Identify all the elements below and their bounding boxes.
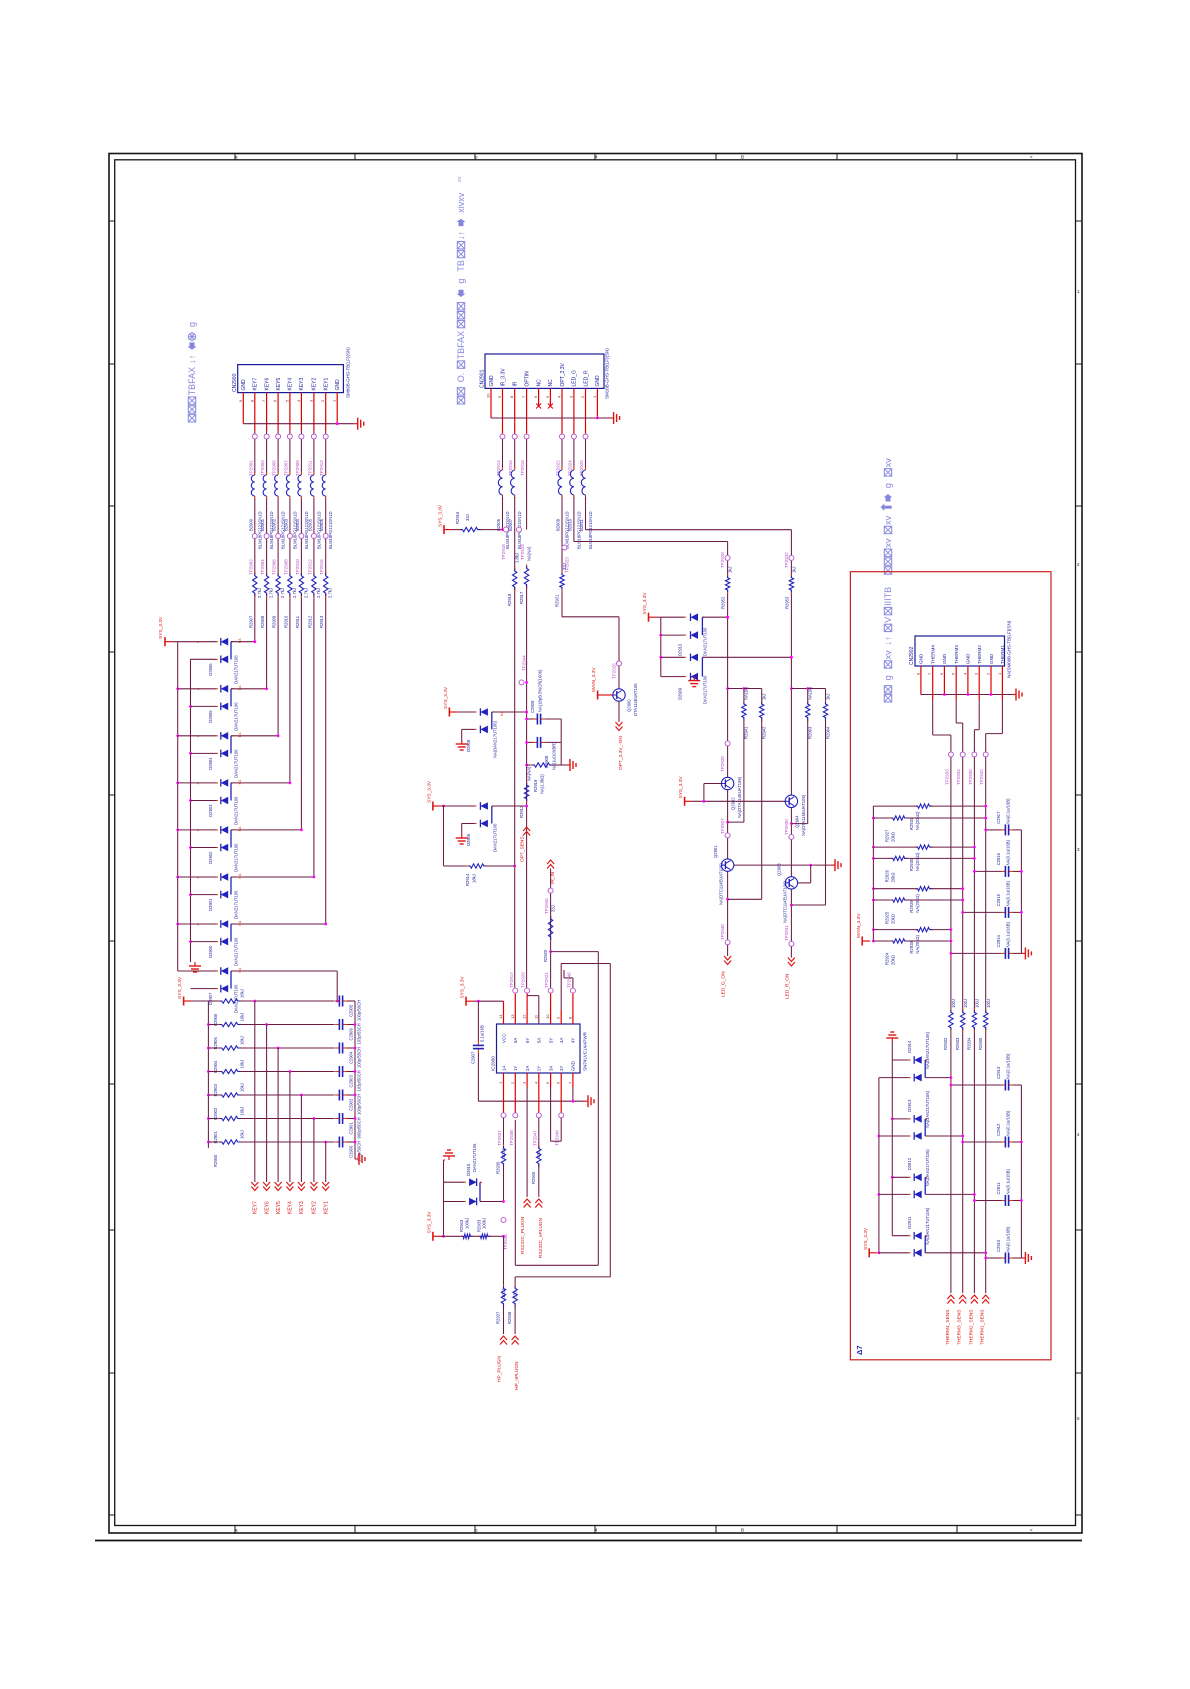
ground for CN2901: [610, 412, 620, 424]
svg-text:Q2900: Q2900: [627, 699, 632, 712]
wire KEY5 column: [277, 431, 279, 736]
svg-text:R2926: R2926: [884, 869, 889, 882]
svg-text:TP2910: TP2910: [295, 559, 300, 575]
svg-text:THERM4_SENS: THERM4_SENS: [945, 1310, 951, 1345]
wire LED_R route: [586, 497, 792, 555]
svg-text:g: g: [187, 322, 197, 327]
wire KEY3 to port: [300, 1095, 302, 1182]
svg-text:100J: 100J: [963, 999, 968, 1008]
svg-text:TP2920: TP2920: [720, 756, 725, 772]
svg-text:CN2901: CN2901: [480, 369, 486, 388]
svg-text:NA(DAN217UT106): NA(DAN217UT106): [925, 1031, 930, 1069]
port KEY7: [251, 1182, 258, 1214]
svg-text:BLM18PG121SN1D: BLM18PG121SN1D: [328, 512, 333, 549]
port OPT_SENS: [520, 827, 531, 862]
resistor R2914: [465, 864, 515, 886]
wire KEY5 to port: [277, 1048, 279, 1182]
svg-text:R2933: R2933: [476, 1219, 481, 1232]
svg-text:100kJ: 100kJ: [464, 1218, 469, 1229]
wire matrix rail B: [189, 659, 192, 962]
resistor R2917: [519, 546, 532, 604]
resistor R2933: [955, 999, 968, 1050]
svg-text:R2914: R2914: [465, 873, 470, 886]
svg-text:2A: 2A: [525, 1066, 530, 1071]
svg-text:6Y: 6Y: [525, 1038, 530, 1043]
svg-text:KEY4: KEY4: [288, 377, 294, 390]
power MAIN_3.3V red box: [856, 913, 870, 946]
wire KEY1 to port: [325, 1142, 327, 1182]
test point TP2920: [720, 741, 730, 772]
wire Q2902 base: [704, 784, 722, 802]
wire row to KEY6 and cap: [240, 1023, 334, 1026]
wire Q2901 emitter to ground: [734, 864, 831, 867]
wire pulldown rail: [192, 1001, 210, 1148]
svg-text:KEY6: KEY6: [264, 377, 270, 390]
svg-text:D2903: D2903: [208, 804, 213, 817]
test point TP2910: [295, 534, 304, 576]
test point TP2924: [567, 431, 576, 477]
svg-text:NA(DAN217UT106): NA(DAN217UT106): [925, 1207, 930, 1245]
dual diode D2905: [178, 685, 268, 731]
svg-text:D2906: D2906: [466, 833, 471, 846]
inductor B2905: [307, 472, 321, 549]
svg-text:13: 13: [510, 1014, 515, 1019]
wire KEY7 column: [254, 431, 256, 642]
capacitor C2906: [335, 1019, 362, 1045]
svg-text:xv: xv: [883, 458, 893, 468]
wire row to KEY2 and cap: [240, 1117, 334, 1120]
svg-text:O.: O.: [456, 373, 466, 383]
svg-text:LED_G_ON: LED_G_ON: [721, 971, 727, 997]
svg-text:NC: NC: [548, 379, 554, 387]
svg-text:R2936: R2936: [496, 1161, 501, 1174]
svg-text:C2913: C2913: [996, 1066, 1001, 1079]
test point TP2903: [260, 434, 269, 476]
inductor B2902: [272, 472, 286, 549]
svg-text:TB: TB: [456, 260, 466, 272]
svg-text:<: <: [1030, 1528, 1033, 1533]
svg-text:TP2942: TP2942: [979, 769, 984, 785]
wire KEY6 column: [266, 431, 268, 689]
svg-text:R2935: R2935: [978, 1037, 983, 1050]
svg-text:1Y: 1Y: [513, 1066, 518, 1071]
svg-text:16kJ: 16kJ: [240, 1013, 245, 1022]
wire pin8 jog: [564, 970, 573, 988]
dual diode D2908: [457, 708, 528, 758]
svg-text:TP2930: TP2930: [784, 819, 789, 835]
connector CN2901: [480, 348, 610, 399]
test point TP2941: [784, 925, 794, 947]
resistor R2908: [260, 572, 274, 629]
test point TP2904: [260, 534, 269, 576]
svg-text:SYS_3.3V: SYS_3.3V: [177, 976, 183, 999]
svg-text:KEY3: KEY3: [299, 1201, 305, 1214]
ground cap bus: [355, 1153, 365, 1165]
svg-text:C2904: C2904: [349, 1051, 354, 1064]
resistor R2921: [555, 563, 567, 607]
svg-text:103p/53CH: 103p/53CH: [357, 1023, 362, 1044]
port THERM3_SENS: [957, 1295, 967, 1345]
power SYS_3.3V LED rail: [678, 776, 785, 806]
svg-text:C2911: C2911: [996, 1182, 1001, 1195]
resistor R2937: [496, 1285, 506, 1335]
wire upper cap ground bus: [1020, 830, 1023, 954]
dual diode D2901: [178, 873, 316, 919]
port HP_PLUGN: [497, 1336, 507, 1382]
svg-text:TP2916: TP2916: [520, 460, 525, 476]
svg-text:NA(18pB.5%CR(1606): NA(18pB.5%CR(1606): [538, 669, 543, 712]
svg-text:3Y: 3Y: [559, 1066, 564, 1071]
svg-text:R2910: R2910: [283, 615, 288, 628]
resistor R2913: [519, 766, 532, 818]
test point TP2902: [248, 534, 257, 576]
svg-text:D2900: D2900: [208, 945, 213, 958]
test point TP2928: [720, 552, 730, 568]
svg-text:TBFAX: TBFAX: [187, 367, 197, 396]
svg-text:C2917: C2917: [996, 811, 1001, 824]
port THERM2_SENS: [968, 1295, 978, 1345]
wire THERM3 jog: [956, 700, 963, 752]
resistor R2953: [784, 566, 796, 609]
svg-text:GND: GND: [571, 1061, 576, 1071]
svg-text:Q2902: Q2902: [731, 797, 736, 810]
svg-text:KEY2: KEY2: [312, 377, 318, 390]
wire lower cap ground bus: [1020, 1085, 1023, 1258]
svg-text:R2964: R2964: [825, 726, 830, 739]
label Delta7: [855, 1345, 864, 1355]
resistor R2963: [791, 686, 812, 823]
svg-text:1kJ: 1kJ: [728, 566, 733, 573]
svg-text:12: 12: [522, 1014, 527, 1019]
svg-text:SYS_3.3V: SYS_3.3V: [443, 686, 449, 709]
test point TP2929: [521, 972, 530, 1010]
wire THERM4 jog: [933, 700, 951, 752]
wire pin9 loop up: [515, 964, 610, 1287]
wire matrix rail A: [176, 642, 179, 971]
transistor Q2900: [613, 683, 638, 716]
dual diode D2911: [879, 1207, 987, 1257]
wire LED_G column: [726, 561, 729, 956]
svg-text:5Y: 5Y: [548, 1038, 553, 1043]
svg-text:4A: 4A: [559, 1038, 564, 1043]
svg-text:10: 10: [545, 1014, 550, 1019]
dual diode D2912: [879, 1149, 976, 1199]
svg-text:TP2921: TP2921: [544, 972, 549, 988]
svg-text:R2917: R2917: [519, 591, 524, 604]
svg-text:KEY7: KEY7: [253, 377, 259, 390]
svg-text:1.8kJ: 1.8kJ: [515, 553, 520, 563]
ground red box diodes: [886, 1032, 898, 1060]
svg-text:GND: GND: [942, 653, 947, 664]
svg-text:NA(0.1u/16B): NA(0.1u/16B): [1006, 1053, 1011, 1079]
resistor R2905: [208, 989, 244, 1026]
svg-text:DAN217UT106: DAN217UT106: [234, 655, 239, 684]
svg-text:SM09B-GHS-TB(LF)(SN): SM09B-GHS-TB(LF)(SN): [346, 347, 351, 398]
resistor R2930: [873, 845, 975, 871]
dual diode D2915: [444, 1143, 505, 1205]
svg-text:DAN217UT106: DAN217UT106: [703, 627, 708, 656]
capacitor C2902: [335, 1090, 362, 1116]
svg-text:C2909: C2909: [530, 700, 535, 713]
port RS232C_nPLUGN: [535, 1199, 544, 1258]
svg-text:20kΩ: 20kΩ: [890, 914, 895, 924]
test point TP2915: [508, 431, 517, 477]
svg-text:KEY6: KEY6: [264, 1201, 270, 1214]
ground upper caps: [1021, 947, 1031, 959]
svg-text:B2910: B2910: [567, 518, 572, 531]
test point TP2935: [968, 752, 977, 785]
resistor R2918: [507, 553, 520, 606]
svg-text:KA: KA: [238, 685, 242, 690]
svg-text:THERM3_SENS: THERM3_SENS: [957, 1310, 963, 1345]
svg-text:TP2932: TP2932: [784, 552, 789, 568]
svg-text:SN74LVC14APWR: SN74LVC14APWR: [583, 1031, 588, 1071]
wire OPTIN column lower: [527, 587, 539, 1024]
svg-text:2.7kJ: 2.7kJ: [316, 588, 321, 598]
svg-text:R2928: R2928: [909, 941, 914, 954]
capacitor C2903: [335, 1066, 362, 1092]
dual diode D2906 clamp: [441, 802, 528, 852]
svg-text:R2911: R2911: [295, 615, 300, 628]
wire KEY6 to port: [266, 1025, 268, 1183]
wire row to KEY3 and cap: [240, 1094, 334, 1097]
power SYS_3.3V clamp D2908: [443, 686, 457, 716]
resistor R2924: [873, 939, 952, 965]
svg-text:B2904: B2904: [295, 518, 300, 531]
ground clamp D2906: [456, 834, 468, 844]
svg-text:NA(0.1u/16B): NA(0.1u/16B): [1006, 798, 1011, 824]
wire KEY7 to port: [254, 1001, 256, 1182]
svg-text:B2909: B2909: [556, 518, 561, 531]
svg-text:R2937: R2937: [496, 1311, 501, 1324]
wire red box rail B: [878, 1078, 881, 1255]
transistor Q2902: [721, 776, 742, 818]
wire THERM2 jog: [974, 700, 979, 752]
svg-text:D2911: D2911: [907, 1216, 912, 1229]
svg-text:SYS_3.3V: SYS_3.3V: [158, 616, 164, 639]
svg-text:TP2928: TP2928: [720, 552, 725, 568]
resistor R2933: [472, 1218, 505, 1239]
svg-text:KA: KA: [238, 638, 242, 643]
svg-text:NA(20kΩ): NA(20kΩ): [915, 935, 920, 954]
svg-text:R2941: R2941: [744, 726, 749, 739]
svg-text:NA(DAN217UT106): NA(DAN217UT106): [493, 720, 498, 758]
test point TP2938: [509, 1087, 518, 1146]
connector CN2900: [232, 347, 351, 398]
svg-text:xv: xv: [883, 538, 893, 548]
capacitor C2900: [335, 1137, 362, 1163]
test point TP2922: [556, 431, 565, 477]
svg-text:↓↑: ↓↑: [456, 231, 466, 240]
svg-text:C2915: C2915: [996, 893, 1001, 906]
svg-text:B2911: B2911: [579, 519, 584, 531]
svg-text:DAN217UT106: DAN217UT106: [234, 937, 239, 966]
wire OPTIN column upper: [526, 439, 528, 529]
svg-text:1kJ: 1kJ: [791, 566, 796, 573]
port KEY5: [275, 1182, 282, 1214]
resistor R2911: [295, 572, 309, 629]
svg-text:MAIN_3.3V: MAIN_3.3V: [856, 913, 862, 938]
inductor B2910: [567, 439, 581, 549]
svg-text:IC2900: IC2900: [491, 1056, 496, 1071]
resistor R2909: [272, 572, 286, 629]
svg-text:TP2927: TP2927: [720, 818, 725, 834]
svg-text:C2905: C2905: [349, 1004, 354, 1017]
dual diode D2904: [178, 732, 280, 778]
svg-text:R2943: R2943: [459, 1219, 464, 1232]
svg-text:R2963: R2963: [807, 726, 812, 739]
svg-text:16kJ: 16kJ: [240, 1083, 245, 1092]
svg-text:HP_PLUGN: HP_PLUGN: [497, 1356, 503, 1382]
resistor R2907: [248, 572, 261, 629]
svg-text:18kJ: 18kJ: [472, 874, 477, 883]
wire row to KEY1 and cap: [240, 1141, 334, 1144]
svg-text:TP2934: TP2934: [956, 769, 961, 785]
svg-text:GND: GND: [919, 653, 924, 664]
svg-text:CN2902: CN2902: [909, 646, 915, 665]
svg-text:D2904: D2904: [208, 757, 213, 770]
wire cap bus clamp1: [560, 719, 562, 765]
resistor R2902: [208, 1083, 244, 1120]
svg-text:B2901: B2901: [260, 518, 265, 531]
svg-text:xv: xv: [883, 650, 893, 660]
capacitor C2905: [335, 996, 362, 1022]
svg-text:R2934: R2934: [967, 1037, 972, 1050]
inductor B2907: [508, 439, 522, 549]
capacitor C2910: [984, 1226, 1021, 1263]
svg-text:NA(0.1u/16B): NA(0.1u/16B): [1006, 1169, 1011, 1195]
wire clamp2 rail: [444, 806, 469, 866]
svg-text:MAIN_3.3V: MAIN_3.3V: [591, 667, 597, 692]
test point TP2925: [579, 431, 588, 477]
wire IR_IN column: [549, 869, 552, 988]
svg-text:SYS_3.3V: SYS_3.3V: [678, 776, 684, 799]
svg-text:TP2938: TP2938: [509, 1130, 514, 1146]
svg-text:C2907: C2907: [471, 1051, 476, 1064]
inductor B2906: [496, 439, 510, 549]
resistor R2952: [721, 566, 733, 609]
svg-text:C2900: C2900: [349, 1145, 354, 1158]
resistor R2934: [967, 999, 980, 1050]
svg-text:DAN217UT106: DAN217UT106: [703, 675, 708, 704]
title text block 3: [881, 458, 894, 702]
resistor R2925: [873, 898, 964, 924]
svg-text:NA(NA): NA(NA): [527, 546, 532, 561]
resistor R2919: [525, 763, 566, 794]
svg-text:DAN217UT106: DAN217UT106: [234, 749, 239, 778]
svg-text:KEY5: KEY5: [276, 1201, 282, 1214]
svg-text:TP2937: TP2937: [497, 1130, 502, 1146]
svg-text:R2912: R2912: [307, 615, 312, 628]
wire THERM1 jog: [986, 700, 1003, 752]
svg-text:NA(0.1u/16B): NA(0.1u/16B): [1006, 1226, 1011, 1252]
IC U2900 SN74LVC14APWR: [491, 1024, 588, 1073]
svg-text:NA(1u/10XBR): NA(1u/10XBR): [552, 742, 557, 770]
svg-text:KA: KA: [500, 711, 504, 716]
resistor R2900: [208, 1130, 244, 1167]
svg-text:R2916: R2916: [455, 511, 460, 524]
svg-text:D2913: D2913: [907, 1099, 912, 1112]
test point TP2927: [720, 818, 730, 838]
svg-text:20kΩ: 20kΩ: [890, 873, 895, 883]
resistor R2943: [441, 1218, 473, 1239]
svg-text:BLM18PG121SN1D: BLM18PG121SN1D: [588, 512, 593, 549]
svg-text:↓↑: ↓↑: [883, 636, 893, 645]
resistor R2913: [319, 572, 333, 629]
svg-text:GND: GND: [595, 375, 601, 387]
power SYS_3.3V red box: [863, 1227, 877, 1257]
resistor R2928: [873, 927, 952, 953]
svg-text:OPT_SENS: OPT_SENS: [520, 836, 526, 862]
wire IR_3.3V net: [487, 497, 504, 531]
wire OPT_3.3V column: [562, 497, 619, 689]
transistor Q2904: [785, 794, 806, 836]
svg-text:TP2919: TP2919: [520, 544, 525, 560]
svg-text:C2914: C2914: [996, 934, 1001, 947]
svg-text:B2907: B2907: [508, 518, 513, 531]
wire HP_PLUGN column: [503, 1236, 505, 1286]
svg-text:16kJ: 16kJ: [240, 1130, 245, 1139]
svg-text:B: B: [741, 1528, 744, 1533]
svg-text:KA: KA: [238, 920, 242, 925]
svg-text:C2910: C2910: [996, 1239, 1001, 1252]
svg-text:TP2933: TP2933: [944, 769, 949, 785]
power SYS_3.3V key matrix: [158, 616, 173, 646]
resistor R2932: [943, 999, 956, 1050]
test point TP2917: [509, 972, 518, 1010]
wire D2915 left rail: [442, 1182, 445, 1238]
resistor R2945: [531, 1118, 541, 1197]
svg-text:TP2912: TP2912: [307, 559, 312, 575]
resistor R2920: [543, 905, 556, 962]
capacitor C2908: [525, 737, 561, 770]
svg-text:SYS_3.3V: SYS_3.3V: [427, 780, 433, 803]
dual diode D2903: [178, 779, 292, 825]
wire THERM columns: [950, 757, 952, 1293]
svg-text:KEY2: KEY2: [312, 1201, 318, 1214]
wire KEY1 column: [325, 431, 327, 925]
test point TP2946: [566, 972, 575, 1010]
resistor R2912: [307, 572, 321, 629]
dual diode D2902: [178, 826, 303, 872]
svg-text:B2902: B2902: [272, 518, 277, 531]
power SYS_3.3V R2916: [438, 504, 453, 534]
svg-text:↓↑: ↓↑: [187, 355, 197, 364]
svg-text:DTA114EUAT106: DTA114EUAT106: [633, 683, 638, 716]
resistor R2936: [496, 1118, 506, 1202]
resistor R2941: [728, 686, 749, 822]
svg-text:NA(DTA115EUAT106): NA(DTA115EUAT106): [801, 794, 806, 836]
svg-text:2.7kJ: 2.7kJ: [280, 588, 285, 598]
port KEY1: [322, 1182, 329, 1214]
svg-text:RS232C_nPLUGN: RS232C_nPLUGN: [538, 1217, 544, 1258]
wire D2910 rail: [657, 617, 663, 676]
svg-text:C2916: C2916: [996, 852, 1001, 865]
test point TP2947: [532, 1087, 541, 1146]
svg-text:<: <: [1030, 155, 1033, 160]
svg-text:R2908: R2908: [260, 615, 265, 628]
svg-text:TP2947: TP2947: [532, 1130, 537, 1146]
svg-text:NA(DTA114EUAT196): NA(DTA114EUAT196): [737, 776, 742, 818]
svg-text:LED_R_ON: LED_R_ON: [784, 973, 790, 999]
test point TP2945: [544, 888, 553, 914]
port LED_R_ON: [784, 958, 795, 1000]
svg-text:V: V: [883, 617, 893, 623]
DNP region box: [850, 572, 1051, 1360]
resistor R2903: [208, 1060, 244, 1097]
svg-text:D2912: D2912: [907, 1157, 912, 1170]
test point TP2948: [555, 1087, 564, 1146]
